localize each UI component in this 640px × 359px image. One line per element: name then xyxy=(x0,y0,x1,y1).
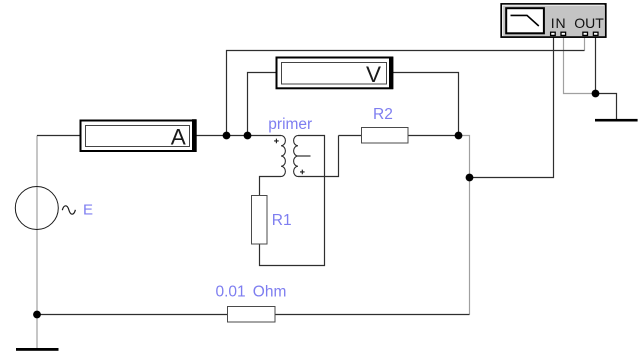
svg-text:A: A xyxy=(171,125,186,150)
svg-text:Ohm: Ohm xyxy=(253,284,287,301)
svg-text:R2: R2 xyxy=(373,106,393,123)
svg-text:E: E xyxy=(83,202,93,219)
svg-text:0.01: 0.01 xyxy=(216,284,246,301)
svg-text:primer: primer xyxy=(268,116,312,133)
svg-text:V: V xyxy=(366,62,381,87)
svg-text:IN: IN xyxy=(551,15,567,31)
svg-text:OUT: OUT xyxy=(574,15,604,31)
svg-text:R1: R1 xyxy=(272,212,292,229)
